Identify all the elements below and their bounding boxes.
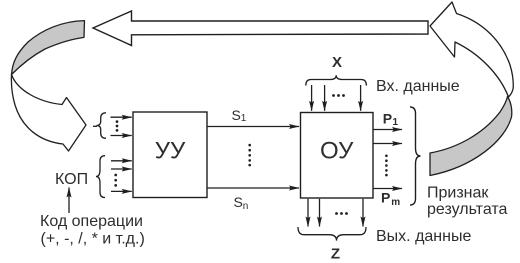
wire input 1 into UU	[111, 116, 132, 118]
svg-text:1: 1	[393, 117, 399, 128]
wire z2 out of OU bottom	[319, 199, 321, 227]
svg-text:ОУ: ОУ	[320, 138, 354, 165]
dots P group	[385, 155, 388, 177]
box OU	[301, 113, 374, 199]
wire xk into OU top	[360, 85, 362, 111]
arrow from caption to KOP	[68, 188, 70, 214]
wire z1 out of OU bottom	[307, 199, 309, 227]
svg-text:S: S	[232, 107, 241, 123]
wire x2 into OU top	[324, 85, 326, 111]
brace P outputs	[410, 107, 421, 205]
wire input 2 into UU	[111, 135, 132, 137]
right curved arrow white head band	[430, 2, 513, 97]
big feedback arrow (top, pointing left)	[93, 11, 428, 46]
svg-text:S: S	[234, 194, 243, 210]
svg-text:Признак: Признак	[427, 185, 489, 202]
dots between S lines	[248, 144, 251, 167]
svg-text:P: P	[381, 190, 390, 206]
wire KOP bit n into UU	[111, 190, 132, 192]
wire P2 out of OU	[374, 143, 403, 145]
left curved arrow gray tail	[12, 21, 85, 75]
svg-text:1: 1	[241, 113, 247, 124]
wire Sn	[208, 187, 300, 189]
box UU	[133, 112, 207, 198]
wire S1	[208, 126, 300, 128]
wire KOP bit 2 into UU	[111, 168, 132, 170]
underbrace z group	[298, 227, 366, 241]
wire Pm out of OU	[374, 188, 403, 190]
dots group 1	[116, 120, 119, 131]
dots x group	[332, 94, 345, 97]
overbrace x group	[306, 75, 367, 85]
svg-text:P: P	[383, 110, 392, 126]
leader dash from curved arrow to brace	[93, 125, 97, 127]
left curved arrow white head band	[11, 75, 86, 152]
svg-text:КОП: КОП	[55, 171, 88, 188]
svg-text:Z: Z	[331, 246, 340, 263]
wire KOP bit 1 into UU	[111, 160, 132, 162]
svg-text:n: n	[243, 201, 249, 212]
dots z group	[335, 212, 348, 215]
dots KOP group	[114, 174, 117, 187]
svg-text:УУ: УУ	[155, 138, 186, 165]
svg-text:Код операции: Код операции	[40, 213, 143, 230]
wire x1 into OU top	[311, 85, 313, 111]
svg-text:m: m	[391, 197, 400, 208]
svg-text:Вх. данные: Вх. данные	[376, 78, 460, 95]
svg-text:Вых. данные: Вых. данные	[376, 228, 471, 245]
svg-text:(+, -, /, * и т.д.): (+, -, /, * и т.д.)	[41, 230, 145, 247]
svg-text:X: X	[332, 54, 342, 71]
right curved arrow gray tail	[430, 97, 512, 176]
brace KOP group	[96, 156, 105, 198]
brace UU input group 1	[97, 113, 107, 139]
wire zk out of OU bottom	[362, 199, 364, 227]
svg-text:результата: результата	[427, 201, 508, 218]
wire P1 out of OU	[374, 129, 403, 131]
